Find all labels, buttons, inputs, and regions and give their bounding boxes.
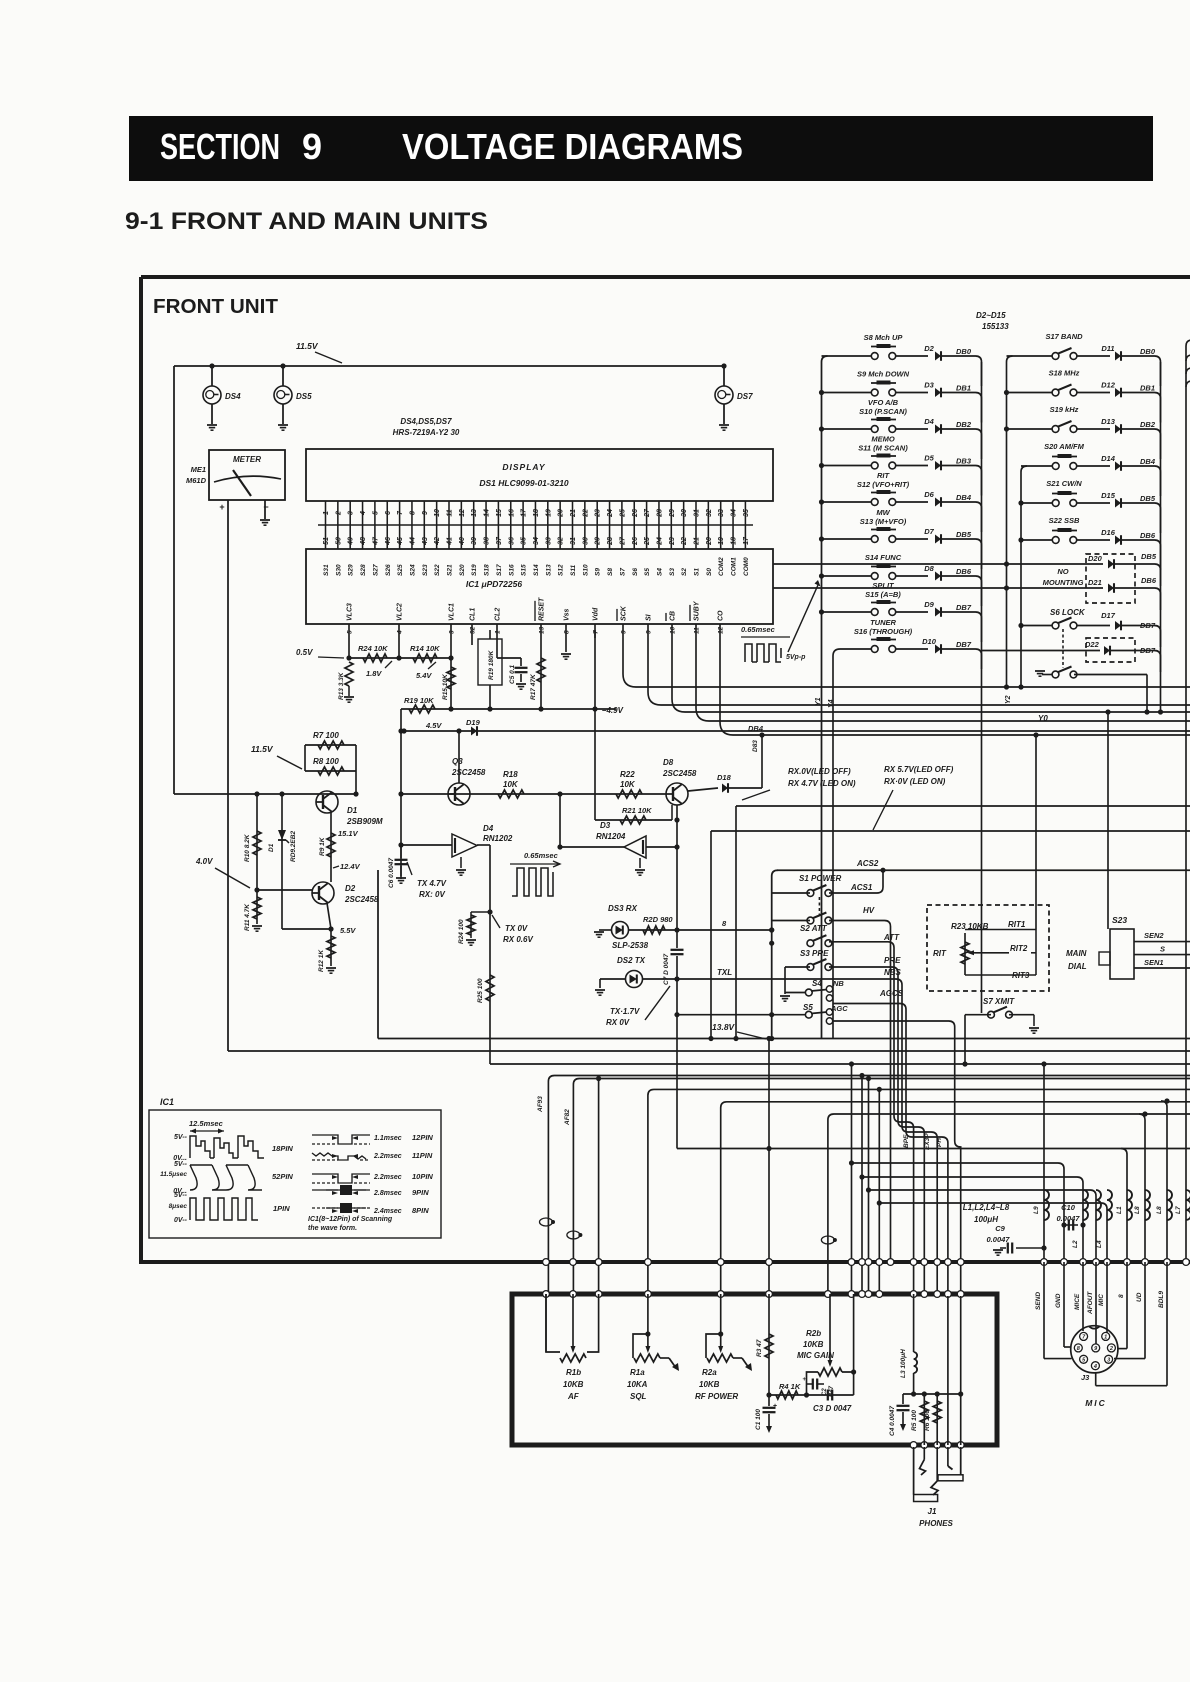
svg-text:D2: D2	[345, 884, 356, 893]
svg-text:L4: L4	[1096, 1240, 1103, 1248]
svg-text:S12: S12	[558, 564, 565, 576]
svg-text:S25: S25	[397, 564, 404, 576]
svg-text:1: 1	[495, 630, 502, 634]
svg-text:7: 7	[593, 630, 600, 634]
svg-text:4: 4	[1093, 1364, 1097, 1370]
svg-text:S11: S11	[570, 565, 577, 576]
svg-text:4: 4	[360, 511, 367, 516]
svg-text:Y0: Y0	[1038, 714, 1048, 723]
svg-text:R8 100: R8 100	[313, 757, 339, 766]
svg-text:RN1202: RN1202	[483, 834, 513, 843]
svg-text:24: 24	[656, 537, 663, 546]
svg-text:CB: CB	[670, 611, 677, 621]
svg-text:R24 100: R24 100	[458, 919, 465, 944]
svg-text:IC1: IC1	[160, 1097, 174, 1107]
svg-text:TX 0V: TX 0V	[505, 924, 528, 933]
svg-text:9: 9	[646, 630, 653, 634]
svg-text:CL2: CL2	[495, 608, 502, 621]
svg-text:18: 18	[731, 537, 738, 545]
svg-text:10K: 10K	[503, 780, 519, 789]
svg-text:AF: AF	[567, 1392, 580, 1401]
svg-text:10KB: 10KB	[699, 1380, 720, 1389]
svg-text:VOLTAGE DIAGRAMS: VOLTAGE DIAGRAMS	[402, 126, 743, 167]
svg-text:SEN1: SEN1	[1144, 958, 1164, 967]
svg-text:2.4msec: 2.4msec	[373, 1208, 402, 1215]
svg-text:36: 36	[508, 537, 515, 545]
svg-text:S18: S18	[484, 564, 491, 576]
svg-text:RD9.2EB2: RD9.2EB2	[290, 831, 297, 862]
svg-text:DB6: DB6	[1140, 531, 1156, 540]
svg-text:S30: S30	[335, 564, 342, 576]
svg-text:35: 35	[743, 509, 750, 517]
svg-text:D17: D17	[1101, 611, 1116, 620]
svg-text:S4: S4	[656, 568, 663, 576]
svg-text:4.5V: 4.5V	[425, 721, 442, 730]
svg-text:Vss: Vss	[564, 608, 571, 621]
svg-text:MAIN: MAIN	[1066, 949, 1087, 958]
svg-text:11.5V: 11.5V	[296, 341, 319, 351]
svg-text:R10 8.2K: R10 8.2K	[244, 833, 251, 862]
svg-text:S21 CW/N: S21 CW/N	[1046, 479, 1082, 488]
svg-text:38: 38	[484, 537, 491, 545]
svg-text:S23: S23	[422, 564, 429, 576]
svg-text:13: 13	[539, 626, 546, 634]
svg-text:AF82: AF82	[564, 1109, 571, 1126]
svg-text:24: 24	[607, 509, 614, 518]
svg-text:SEN2: SEN2	[1144, 931, 1164, 940]
svg-text:10: 10	[670, 626, 677, 634]
svg-text:D9: D9	[924, 600, 934, 609]
svg-text:R11 4.7K: R11 4.7K	[244, 903, 251, 931]
svg-text:RX·0V (LED ON): RX·0V (LED ON)	[884, 777, 946, 786]
svg-text:R22: R22	[620, 770, 635, 779]
svg-text:S6 LOCK: S6 LOCK	[1050, 608, 1086, 617]
svg-text:R4 1K: R4 1K	[779, 1382, 801, 1391]
svg-text:D11: D11	[1101, 344, 1114, 353]
svg-text:VLC2: VLC2	[397, 603, 404, 621]
svg-text:S16: S16	[508, 564, 515, 576]
svg-text:3: 3	[1107, 1358, 1110, 1364]
svg-text:S22 SSB: S22 SSB	[1049, 516, 1080, 525]
svg-text:L3 100μH: L3 100μH	[900, 1349, 907, 1378]
svg-text:D1: D1	[268, 843, 275, 852]
svg-text:12.5msec: 12.5msec	[189, 1119, 224, 1128]
svg-text:COM1: COM1	[731, 557, 738, 576]
svg-text:MICE: MICE	[1074, 1293, 1081, 1310]
svg-text:29: 29	[669, 509, 676, 518]
svg-text:8μsec: 8μsec	[169, 1203, 188, 1210]
svg-text:RX: 0V: RX: 0V	[419, 890, 445, 899]
svg-text:D22: D22	[1085, 640, 1100, 649]
svg-text:48: 48	[360, 537, 367, 546]
svg-text:S9: S9	[595, 568, 602, 576]
svg-text:C6 0.0047: C6 0.0047	[388, 858, 395, 888]
svg-text:NO: NO	[1057, 567, 1068, 576]
svg-text:DB4: DB4	[1140, 457, 1156, 466]
svg-text:S6: S6	[632, 568, 639, 576]
svg-text:5: 5	[372, 511, 379, 515]
svg-text:IC1(8~12Pin) of Scanning: IC1(8~12Pin) of Scanning	[308, 1216, 393, 1223]
svg-text:L8: L8	[1156, 1206, 1163, 1214]
svg-text:CO: CO	[718, 610, 725, 621]
svg-text:SCK: SCK	[621, 605, 628, 621]
svg-text:100μH: 100μH	[974, 1215, 998, 1224]
svg-text:D13: D13	[1101, 417, 1116, 426]
svg-text:DB2: DB2	[956, 420, 972, 429]
svg-text:22: 22	[681, 537, 688, 546]
svg-text:32: 32	[706, 509, 713, 517]
svg-text:D12: D12	[1101, 381, 1116, 390]
svg-text:30: 30	[582, 537, 589, 545]
svg-text:8: 8	[564, 630, 571, 634]
svg-text:+: +	[802, 1377, 806, 1383]
svg-text:DB4: DB4	[748, 724, 764, 733]
svg-text:RX 5.7V(LED OFF): RX 5.7V(LED OFF)	[884, 765, 954, 774]
svg-text:R2a: R2a	[702, 1368, 717, 1377]
svg-text:SI: SI	[646, 613, 653, 621]
svg-text:J1: J1	[928, 1507, 937, 1516]
svg-text:5V--: 5V--	[174, 1161, 188, 1168]
svg-text:2.2msec: 2.2msec	[373, 1153, 402, 1160]
svg-text:27: 27	[619, 536, 626, 546]
svg-text:S26: S26	[385, 564, 392, 576]
svg-text:DS4: DS4	[225, 392, 241, 401]
svg-text:S22: S22	[434, 564, 441, 576]
svg-text:9: 9	[621, 630, 628, 634]
svg-text:9: 9	[422, 511, 429, 515]
svg-text:HRS-7219A-Y2 30: HRS-7219A-Y2 30	[393, 428, 460, 437]
svg-text:S17: S17	[496, 564, 503, 576]
svg-text:41: 41	[447, 537, 454, 546]
svg-text:D2: D2	[924, 344, 934, 353]
svg-text:UD: UD	[1136, 1292, 1143, 1302]
svg-text:RIT: RIT	[933, 949, 947, 958]
svg-text:11.5V: 11.5V	[251, 744, 274, 754]
svg-text:D19: D19	[466, 718, 481, 727]
svg-text:RESET: RESET	[539, 597, 546, 621]
svg-text:VLC3: VLC3	[347, 603, 354, 621]
svg-text:D4: D4	[483, 824, 494, 833]
svg-text:DS1 HLC9099-01-3210: DS1 HLC9099-01-3210	[479, 478, 569, 488]
svg-text:12: 12	[459, 509, 466, 517]
svg-text:S8: S8	[607, 568, 614, 576]
svg-text:S19: S19	[471, 564, 478, 576]
svg-text:S3 PRE: S3 PRE	[800, 949, 829, 958]
svg-text:0.5V: 0.5V	[296, 648, 313, 657]
svg-text:DB5: DB5	[1140, 494, 1156, 503]
svg-text:R6 100: R6 100	[924, 1410, 931, 1431]
svg-text:S16 (THROUGH): S16 (THROUGH)	[854, 627, 913, 636]
svg-text:DB6: DB6	[956, 567, 972, 576]
svg-text:49: 49	[348, 537, 355, 546]
svg-text:the wave form.: the wave form.	[308, 1225, 357, 1232]
svg-text:SQL: SQL	[630, 1392, 647, 1401]
svg-text:S10 (P.SCAN): S10 (P.SCAN)	[859, 407, 907, 416]
svg-text:40: 40	[459, 537, 466, 546]
svg-text:155133: 155133	[982, 322, 1009, 331]
svg-text:DB6: DB6	[1141, 576, 1157, 585]
svg-text:51: 51	[323, 537, 330, 545]
svg-text:4.0V: 4.0V	[195, 857, 213, 866]
svg-text:9-1 FRONT AND MAIN UNITS: 9-1 FRONT AND MAIN UNITS	[125, 208, 488, 235]
svg-text:16: 16	[508, 509, 515, 517]
svg-text:J3: J3	[1081, 1373, 1090, 1382]
svg-text:ACS2: ACS2	[856, 859, 879, 868]
svg-text:0.65msec: 0.65msec	[741, 625, 776, 634]
svg-text:D3: D3	[924, 381, 934, 390]
svg-text:DB2: DB2	[1140, 420, 1156, 429]
svg-text:92: 92	[470, 626, 477, 634]
svg-text:TXL: TXL	[717, 968, 732, 977]
svg-text:R19 10K: R19 10K	[404, 696, 434, 705]
svg-text:D10: D10	[922, 637, 937, 646]
svg-text:IC1 μPD72256: IC1 μPD72256	[466, 579, 522, 589]
svg-text:25: 25	[644, 537, 651, 546]
svg-text:S13: S13	[545, 564, 552, 576]
svg-text:26: 26	[632, 509, 639, 518]
svg-text:21: 21	[694, 537, 701, 546]
svg-text:DB1: DB1	[1140, 384, 1155, 393]
svg-text:EX3P: EX3P	[924, 1133, 931, 1150]
svg-text:2SC2458: 2SC2458	[344, 895, 379, 904]
svg-text:R1a: R1a	[630, 1368, 645, 1377]
svg-text:2.2msec: 2.2msec	[373, 1174, 402, 1181]
svg-text:42: 42	[434, 537, 441, 546]
svg-text:52PIN: 52PIN	[272, 1172, 293, 1181]
svg-text:D8: D8	[924, 564, 934, 573]
svg-text:C5 0.1: C5 0.1	[509, 664, 516, 684]
svg-text:17: 17	[743, 536, 750, 545]
svg-text:S15: S15	[521, 564, 528, 576]
svg-text:R21 10K: R21 10K	[622, 806, 652, 815]
svg-text:11.5μsec: 11.5μsec	[160, 1171, 187, 1178]
svg-text:S21: S21	[447, 564, 454, 576]
svg-text:R12 1K: R12 1K	[318, 949, 325, 972]
svg-text:12: 12	[718, 626, 725, 634]
svg-text:AGCS: AGCS	[879, 989, 904, 998]
svg-text:R14 10K: R14 10K	[410, 644, 440, 653]
svg-text:S1 POWER: S1 POWER	[799, 874, 841, 883]
svg-text:C3 D 0047: C3 D 0047	[813, 1404, 852, 1413]
svg-text:MIC: MIC	[1098, 1294, 1105, 1306]
svg-text:AF93: AF93	[537, 1096, 544, 1113]
svg-text:3: 3	[449, 630, 456, 634]
svg-text:5: 5	[347, 630, 354, 634]
svg-text:14: 14	[484, 509, 491, 517]
svg-text:S23: S23	[1112, 915, 1127, 925]
svg-text:BPE: BPE	[903, 1134, 910, 1148]
svg-text:46: 46	[385, 537, 392, 546]
svg-text:DB7: DB7	[956, 640, 972, 649]
svg-text:S19 kHz: S19 kHz	[1050, 405, 1079, 414]
svg-text:Y4: Y4	[828, 699, 835, 708]
svg-text:DB7: DB7	[1140, 621, 1156, 630]
svg-text:DB5: DB5	[1141, 552, 1157, 561]
svg-text:DS7: DS7	[737, 392, 753, 401]
svg-text:TX·1.7V: TX·1.7V	[610, 1007, 640, 1016]
svg-text:SUBY: SUBY	[694, 600, 701, 621]
svg-text:28: 28	[607, 537, 614, 546]
svg-text:23: 23	[595, 509, 602, 518]
svg-text:SLP-2538: SLP-2538	[612, 941, 649, 950]
svg-text:L2: L2	[1072, 1240, 1079, 1248]
svg-text:C4 0.0047: C4 0.0047	[889, 1406, 896, 1436]
svg-text:DB0: DB0	[1140, 347, 1156, 356]
svg-text:DB7: DB7	[956, 603, 972, 612]
svg-text:0V--: 0V--	[174, 1217, 188, 1224]
svg-text:L1,L2,L4~L8: L1,L2,L4~L8	[963, 1203, 1010, 1212]
svg-text:R5 100: R5 100	[911, 1410, 918, 1431]
svg-text:R13 3.3K: R13 3.3K	[338, 671, 345, 700]
svg-text:RIT2: RIT2	[1010, 944, 1028, 953]
svg-text:18PIN: 18PIN	[272, 1144, 293, 1153]
svg-text:M61D: M61D	[186, 476, 207, 485]
svg-text:D2~D15: D2~D15	[976, 311, 1006, 320]
svg-text:8: 8	[1118, 1294, 1125, 1298]
svg-text:3: 3	[348, 511, 355, 515]
svg-text:DB0: DB0	[956, 347, 972, 356]
svg-text:DS3 RX: DS3 RX	[608, 904, 638, 913]
svg-text:31: 31	[570, 537, 577, 545]
svg-text:D1: D1	[347, 806, 358, 815]
svg-text:2: 2	[335, 511, 342, 516]
svg-text:44: 44	[409, 537, 416, 546]
svg-text:18: 18	[533, 509, 540, 517]
svg-text:R18: R18	[503, 770, 518, 779]
svg-text:BDL9: BDL9	[1158, 1291, 1165, 1308]
svg-text:S7: S7	[619, 568, 626, 576]
svg-text:DB1: DB1	[956, 384, 971, 393]
svg-text:RX.0V(LED OFF): RX.0V(LED OFF)	[788, 767, 851, 776]
svg-text:MIC: MIC	[1085, 1398, 1107, 1408]
svg-text:28: 28	[656, 509, 663, 518]
svg-text:DB5: DB5	[956, 530, 972, 539]
svg-text:12PIN: 12PIN	[412, 1133, 433, 1142]
svg-text:S9 Mch DOWN: S9 Mch DOWN	[857, 370, 910, 379]
svg-text:–4.9V: –4.9V	[602, 706, 624, 715]
svg-text:D5: D5	[924, 454, 934, 463]
svg-text:DB4: DB4	[956, 493, 972, 502]
svg-text:MW: MW	[876, 508, 890, 517]
svg-text:21: 21	[570, 509, 577, 518]
svg-text:19: 19	[718, 537, 725, 545]
svg-text:5.5V: 5.5V	[340, 926, 356, 935]
svg-text:RIT: RIT	[877, 471, 891, 480]
svg-text:11PIN: 11PIN	[412, 1151, 433, 1160]
svg-text:S8 Mch UP: S8 Mch UP	[864, 333, 904, 342]
svg-text:13.8V: 13.8V	[712, 1022, 736, 1032]
svg-text:5.4V: 5.4V	[416, 671, 432, 680]
svg-text:5V--: 5V--	[174, 1134, 188, 1141]
svg-text:S2: S2	[681, 568, 688, 576]
svg-text:S14 FUNC: S14 FUNC	[865, 553, 902, 562]
svg-text:S2 ATT: S2 ATT	[800, 924, 828, 933]
svg-text:+: +	[773, 1403, 777, 1410]
svg-text:S18 MHz: S18 MHz	[1049, 369, 1080, 378]
svg-text:SEND: SEND	[1035, 1292, 1042, 1310]
svg-text:1.8V: 1.8V	[366, 669, 382, 678]
svg-text:11: 11	[694, 627, 701, 634]
svg-text:TUNER: TUNER	[870, 618, 896, 627]
svg-text:R9 1K: R9 1K	[319, 836, 326, 856]
svg-text:R1b: R1b	[566, 1368, 581, 1377]
svg-text:25: 25	[619, 509, 626, 518]
svg-text:RX 0.6V: RX 0.6V	[503, 935, 533, 944]
svg-text:RF POWER: RF POWER	[695, 1392, 738, 1401]
svg-text:RX 0V: RX 0V	[606, 1018, 630, 1027]
svg-text:D15: D15	[1101, 491, 1116, 500]
svg-text:METER: METER	[233, 455, 261, 464]
svg-text:HV: HV	[863, 906, 875, 915]
svg-text:31: 31	[694, 509, 701, 517]
svg-text:PH: PH	[936, 1138, 943, 1147]
svg-text:50: 50	[335, 537, 342, 545]
svg-text:DS2 TX: DS2 TX	[617, 956, 646, 965]
svg-text:D83: D83	[752, 740, 759, 752]
svg-text:12.4V: 12.4V	[340, 862, 361, 871]
svg-text:S24: S24	[409, 564, 416, 576]
svg-text:ME1: ME1	[191, 465, 206, 474]
svg-text:TX 4.7V: TX 4.7V	[417, 879, 447, 888]
svg-text:R2b: R2b	[806, 1329, 821, 1338]
svg-text:L1: L1	[1116, 1206, 1123, 1214]
svg-text:PHONES: PHONES	[919, 1519, 953, 1528]
svg-text:2SC2458: 2SC2458	[451, 768, 486, 777]
svg-text:D4: D4	[924, 417, 934, 426]
svg-text:S20: S20	[459, 564, 466, 576]
svg-text:17: 17	[521, 508, 528, 517]
svg-text:9PIN: 9PIN	[412, 1188, 429, 1197]
svg-text:RIT1: RIT1	[1008, 920, 1026, 929]
svg-text:35: 35	[521, 537, 528, 545]
svg-text:S7 XMIT: S7 XMIT	[983, 997, 1015, 1006]
svg-text:R7 100: R7 100	[313, 731, 339, 740]
svg-text:C7 D 0047: C7 D 0047	[663, 954, 670, 985]
svg-text:DISPLAY: DISPLAY	[502, 462, 546, 472]
svg-text:DS5: DS5	[296, 392, 312, 401]
svg-text:S31: S31	[323, 564, 330, 576]
svg-text:10KA: 10KA	[627, 1380, 648, 1389]
svg-text:32: 32	[558, 537, 565, 545]
svg-text:34: 34	[731, 509, 738, 517]
svg-text:10KB: 10KB	[803, 1340, 824, 1349]
svg-text:SECTION: SECTION	[160, 126, 280, 167]
svg-text:20: 20	[558, 509, 565, 518]
svg-text:DB3: DB3	[956, 457, 972, 466]
svg-text:8: 8	[409, 511, 416, 515]
svg-text:45: 45	[397, 537, 404, 546]
svg-text:8PIN: 8PIN	[412, 1206, 429, 1215]
svg-text:ACS1: ACS1	[850, 883, 873, 892]
svg-text:47: 47	[372, 536, 379, 546]
svg-text:D7: D7	[924, 527, 934, 536]
svg-text:D8: D8	[663, 758, 674, 767]
svg-text:S12 (VFO+RIT): S12 (VFO+RIT)	[857, 480, 910, 489]
svg-text:DB7: DB7	[1140, 646, 1156, 655]
svg-text:S3: S3	[669, 568, 676, 576]
svg-text:ATT: ATT	[883, 933, 900, 942]
svg-text:D20: D20	[1088, 554, 1103, 563]
svg-text:DS4,DS5,DS7: DS4,DS5,DS7	[400, 417, 452, 426]
svg-text:S27: S27	[372, 564, 379, 576]
svg-text:S1: S1	[694, 568, 701, 576]
svg-text:MOUNTING: MOUNTING	[1043, 578, 1084, 587]
svg-text:10K: 10K	[620, 780, 636, 789]
svg-text:2: 2	[1109, 1346, 1113, 1352]
svg-text:10PIN: 10PIN	[412, 1172, 433, 1181]
svg-text:R25 100: R25 100	[477, 978, 484, 1003]
svg-text:0.65msec: 0.65msec	[524, 851, 559, 860]
